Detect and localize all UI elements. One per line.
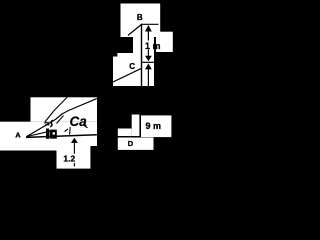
svg-text:C: C <box>129 62 135 71</box>
svg-text:1.2: 1.2 <box>63 154 75 164</box>
svg-text:Ca: Ca <box>70 114 88 129</box>
svg-text:9 m: 9 m <box>146 121 162 131</box>
svg-text:1 m: 1 m <box>145 41 161 51</box>
svg-text:D: D <box>128 139 134 148</box>
svg-text:B: B <box>137 13 143 22</box>
svg-text:A: A <box>15 131 21 140</box>
